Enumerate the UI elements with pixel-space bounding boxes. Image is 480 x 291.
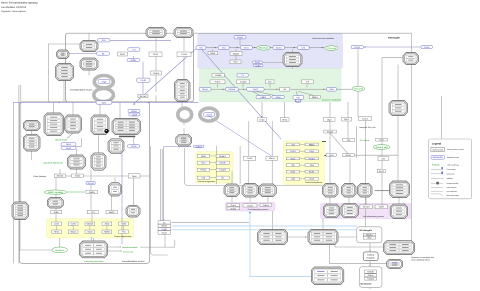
svg-text:Akt1: Akt1 [201,162,206,165]
svg-text:Gene damage: Gene damage [33,175,47,178]
svg-text:Last Modified: 2/22/2013: Last Modified: 2/22/2013 [1,6,27,9]
svg-text:Sucla: Sucla [206,113,212,116]
svg-text:Bcat1: Bcat1 [276,47,282,50]
svg-text:Comt: Comt [424,46,430,49]
svg-text:Snap2: Snap2 [309,157,316,160]
svg-text:Got1: Got1 [244,47,250,50]
svg-text:Got1: Got1 [291,171,297,174]
svg-text:Gabra: Gabra [196,145,203,148]
svg-text:Grin1: Grin1 [120,53,126,56]
svg-text:Neurotransmission: Neurotransmission [122,246,138,249]
svg-text:Gad1: Gad1 [253,88,259,91]
svg-text:Tnf: Tnf [291,143,295,146]
svg-text:Aldh5: Aldh5 [260,96,266,99]
svg-text:Dlg4: Dlg4 [102,80,107,83]
svg-text:Pro-inflammatory process: Pro-inflammatory process [248,208,269,211]
svg-text:mood stabilizing effects: mood stabilizing effects [411,259,430,262]
svg-text:Snap2: Snap2 [327,131,334,134]
svg-text:Slc6a4: Slc6a4 [57,175,64,178]
svg-text:Glul: Glul [310,164,314,167]
svg-text:Nfkb1: Nfkb1 [309,143,315,146]
svg-text:Drd2: Drd2 [260,118,266,121]
svg-text:Protein ubiquitination: Protein ubiquitination [114,235,132,238]
svg-text:Htr2a: Htr2a [282,118,288,121]
svg-text:Ogdh: Ogdh [132,113,138,116]
svg-text:Mdh2: Mdh2 [109,211,115,214]
svg-text:Glul: Glul [222,47,226,50]
svg-text:Apoptosis: Apoptosis [55,249,64,252]
svg-text:Slc1a3: Slc1a3 [87,182,94,185]
svg-text:Protein biosynthesis: Protein biosynthesis [305,181,322,184]
svg-text:Aco2: Aco2 [379,170,385,173]
svg-text:Creb1: Creb1 [362,117,369,120]
svg-text:Glul: Glul [380,139,384,142]
svg-text:Grm5: Grm5 [131,145,137,148]
svg-text:Nfkb1: Nfkb1 [131,59,137,62]
svg-text:Organism: Homo sapiens: Organism: Homo sapiens [1,10,27,13]
svg-text:Gria2: Gria2 [231,207,237,210]
svg-text:Idh3a: Idh3a [131,110,137,113]
svg-text:Gabra: Gabra [263,204,270,207]
svg-text:Akt1: Akt1 [233,61,238,64]
svg-text:MAPK signaling: MAPK signaling [48,191,64,194]
svg-text:Grin1: Grin1 [231,204,237,207]
svg-text:Casp3: Casp3 [219,169,226,172]
svg-text:Link to pathway: Link to pathway [447,164,459,167]
svg-text:Tnf: Tnf [306,81,310,84]
svg-text:Aldh5: Aldh5 [89,191,95,194]
svg-text:Glycolysis: Glycolysis [259,47,268,50]
svg-text:Aco2: Aco2 [255,61,261,64]
svg-text:Prkca: Prkca [215,81,221,84]
svg-text:Tnf: Tnf [132,48,136,51]
svg-text:Syn1: Syn1 [291,157,297,160]
svg-text:Long-term potentiation: Long-term potentiation [85,260,104,263]
svg-text:Comt: Comt [71,223,77,226]
svg-text:Dlg4: Dlg4 [309,150,314,153]
svg-text:Casp3: Casp3 [367,278,374,281]
svg-text:Darting: Darting [367,253,375,256]
svg-text:Dlg4: Dlg4 [327,118,332,121]
svg-text:Grm5: Grm5 [181,53,187,56]
svg-text:Gria2: Gria2 [66,147,72,150]
svg-text:Bdnf: Bdnf [201,155,206,158]
svg-text:Gria2: Gria2 [153,53,159,56]
svg-text:Aco2: Aco2 [309,178,315,181]
svg-text:Mapk1: Mapk1 [366,234,373,237]
svg-text:Gad1: Gad1 [75,175,81,178]
svg-text:Slc6a4: Slc6a4 [87,223,94,226]
svg-text:Syn1: Syn1 [102,101,108,104]
svg-text:Ogdh: Ogdh [162,228,168,231]
svg-text:Prkca: Prkca [368,274,374,277]
svg-text:Drd2: Drd2 [256,64,262,67]
svg-text:Bdnf: Bdnf [211,52,216,55]
svg-text:Slc1a3: Slc1a3 [140,95,147,98]
svg-text:TCA cycle: TCA cycle [354,88,364,91]
svg-text:Slc6a4: Slc6a4 [229,88,236,91]
svg-text:Glu release: Glu release [360,139,370,142]
svg-text:Maoa: Maoa [70,231,76,234]
svg-text:Cell survival: Cell survival [123,250,134,253]
svg-text:Mapk1: Mapk1 [233,52,240,55]
svg-text:Akt1: Akt1 [367,237,372,240]
svg-text:Grin1: Grin1 [66,143,72,146]
svg-text:Creb1: Creb1 [140,79,147,82]
svg-text:BD thoughts: BD thoughts [360,229,373,232]
svg-text:Abat: Abat [105,223,110,226]
svg-text:Pathway: Pathway [432,164,440,167]
svg-text:Snap2: Snap2 [237,36,244,39]
svg-text:Neurotoxicity: Neurotoxicity [55,139,68,142]
svg-text:Syn1: Syn1 [344,118,350,121]
svg-text:TCA cycle: TCA cycle [327,47,337,50]
svg-text:Mapk1: Mapk1 [219,155,226,158]
svg-text:Drd2: Drd2 [54,223,60,226]
svg-text:Metabolite node: Metabolite node [447,156,459,159]
svg-text:Mdh2: Mdh2 [295,100,301,103]
svg-text:Got1: Got1 [329,154,335,157]
svg-text:Gsk3b: Gsk3b [367,271,374,274]
svg-text:Abat: Abat [132,175,137,178]
svg-text:Metabolite: Metabolite [433,156,444,159]
svg-text:Abat: Abat [329,88,334,91]
svg-text:thoughts: thoughts [367,256,375,259]
svg-text:Gsk3b: Gsk3b [215,74,222,77]
svg-text:Astrocyte: Astrocyte [388,36,401,39]
svg-text:Bdnf: Bdnf [379,206,384,209]
svg-text:Gsk3b: Gsk3b [219,162,226,165]
svg-text:Gene product / protein: Gene product / protein [447,148,464,151]
svg-text:Aldh5: Aldh5 [104,231,110,234]
svg-text:Casp3: Casp3 [240,81,247,84]
svg-text:Bcat1: Bcat1 [309,171,315,174]
svg-text:Htr2a: Htr2a [355,46,361,49]
svg-text:Htr2a: Htr2a [54,231,60,234]
svg-text:BD Neuron: BD Neuron [361,282,373,285]
svg-text:Maoa: Maoa [269,157,275,160]
svg-text:Astrocytic Glu cycle: Astrocytic Glu cycle [359,126,376,129]
svg-text:Nfkb1: Nfkb1 [312,96,318,99]
svg-text:Idh3a: Idh3a [161,225,167,228]
svg-text:Anti-inflammatory process: Anti-inflammatory process [363,215,384,218]
svg-text:Sdha: Sdha [121,223,127,226]
svg-text:Prkca: Prkca [201,169,207,172]
svg-text:Comt: Comt [247,157,253,160]
svg-text:Grm5: Grm5 [247,204,253,207]
svg-text:Bcat1: Bcat1 [346,154,352,157]
svg-text:Encephalopathic neuron: Encephalopathic neuron [70,88,93,91]
svg-text:Maoa: Maoa [202,88,208,91]
svg-text:Sucla: Sucla [161,231,167,234]
svg-text:Sdha: Sdha [276,96,282,99]
svg-text:Long-term depression: Long-term depression [43,162,64,165]
svg-text:Sdha: Sdha [54,211,60,214]
svg-text:Encephalopathic neuron: Encephalopathic neuron [122,260,145,263]
svg-text:Glutamate metabolism: Glutamate metabolism [322,98,341,101]
svg-text:Gene prod: Gene prod [433,148,444,151]
svg-text:GABA-B path: GABA-B path [375,146,388,149]
svg-text:Gabra: Gabra [153,72,160,75]
svg-text:Name: Encephalopathy signaling: Name: Encephalopathy signaling [1,1,38,4]
svg-text:Branched-chain catabolism: Branched-chain catabolism [313,37,335,40]
svg-text:Gad1: Gad1 [87,231,93,234]
svg-text:Creb1: Creb1 [290,150,297,153]
svg-text:Disease progression: Disease progression [198,180,215,183]
svg-text:Legend: Legend [432,142,442,145]
svg-text:Slc1a3: Slc1a3 [363,206,370,209]
svg-text:Response to neuroleptic and: Response to neuroleptic and [411,256,434,259]
